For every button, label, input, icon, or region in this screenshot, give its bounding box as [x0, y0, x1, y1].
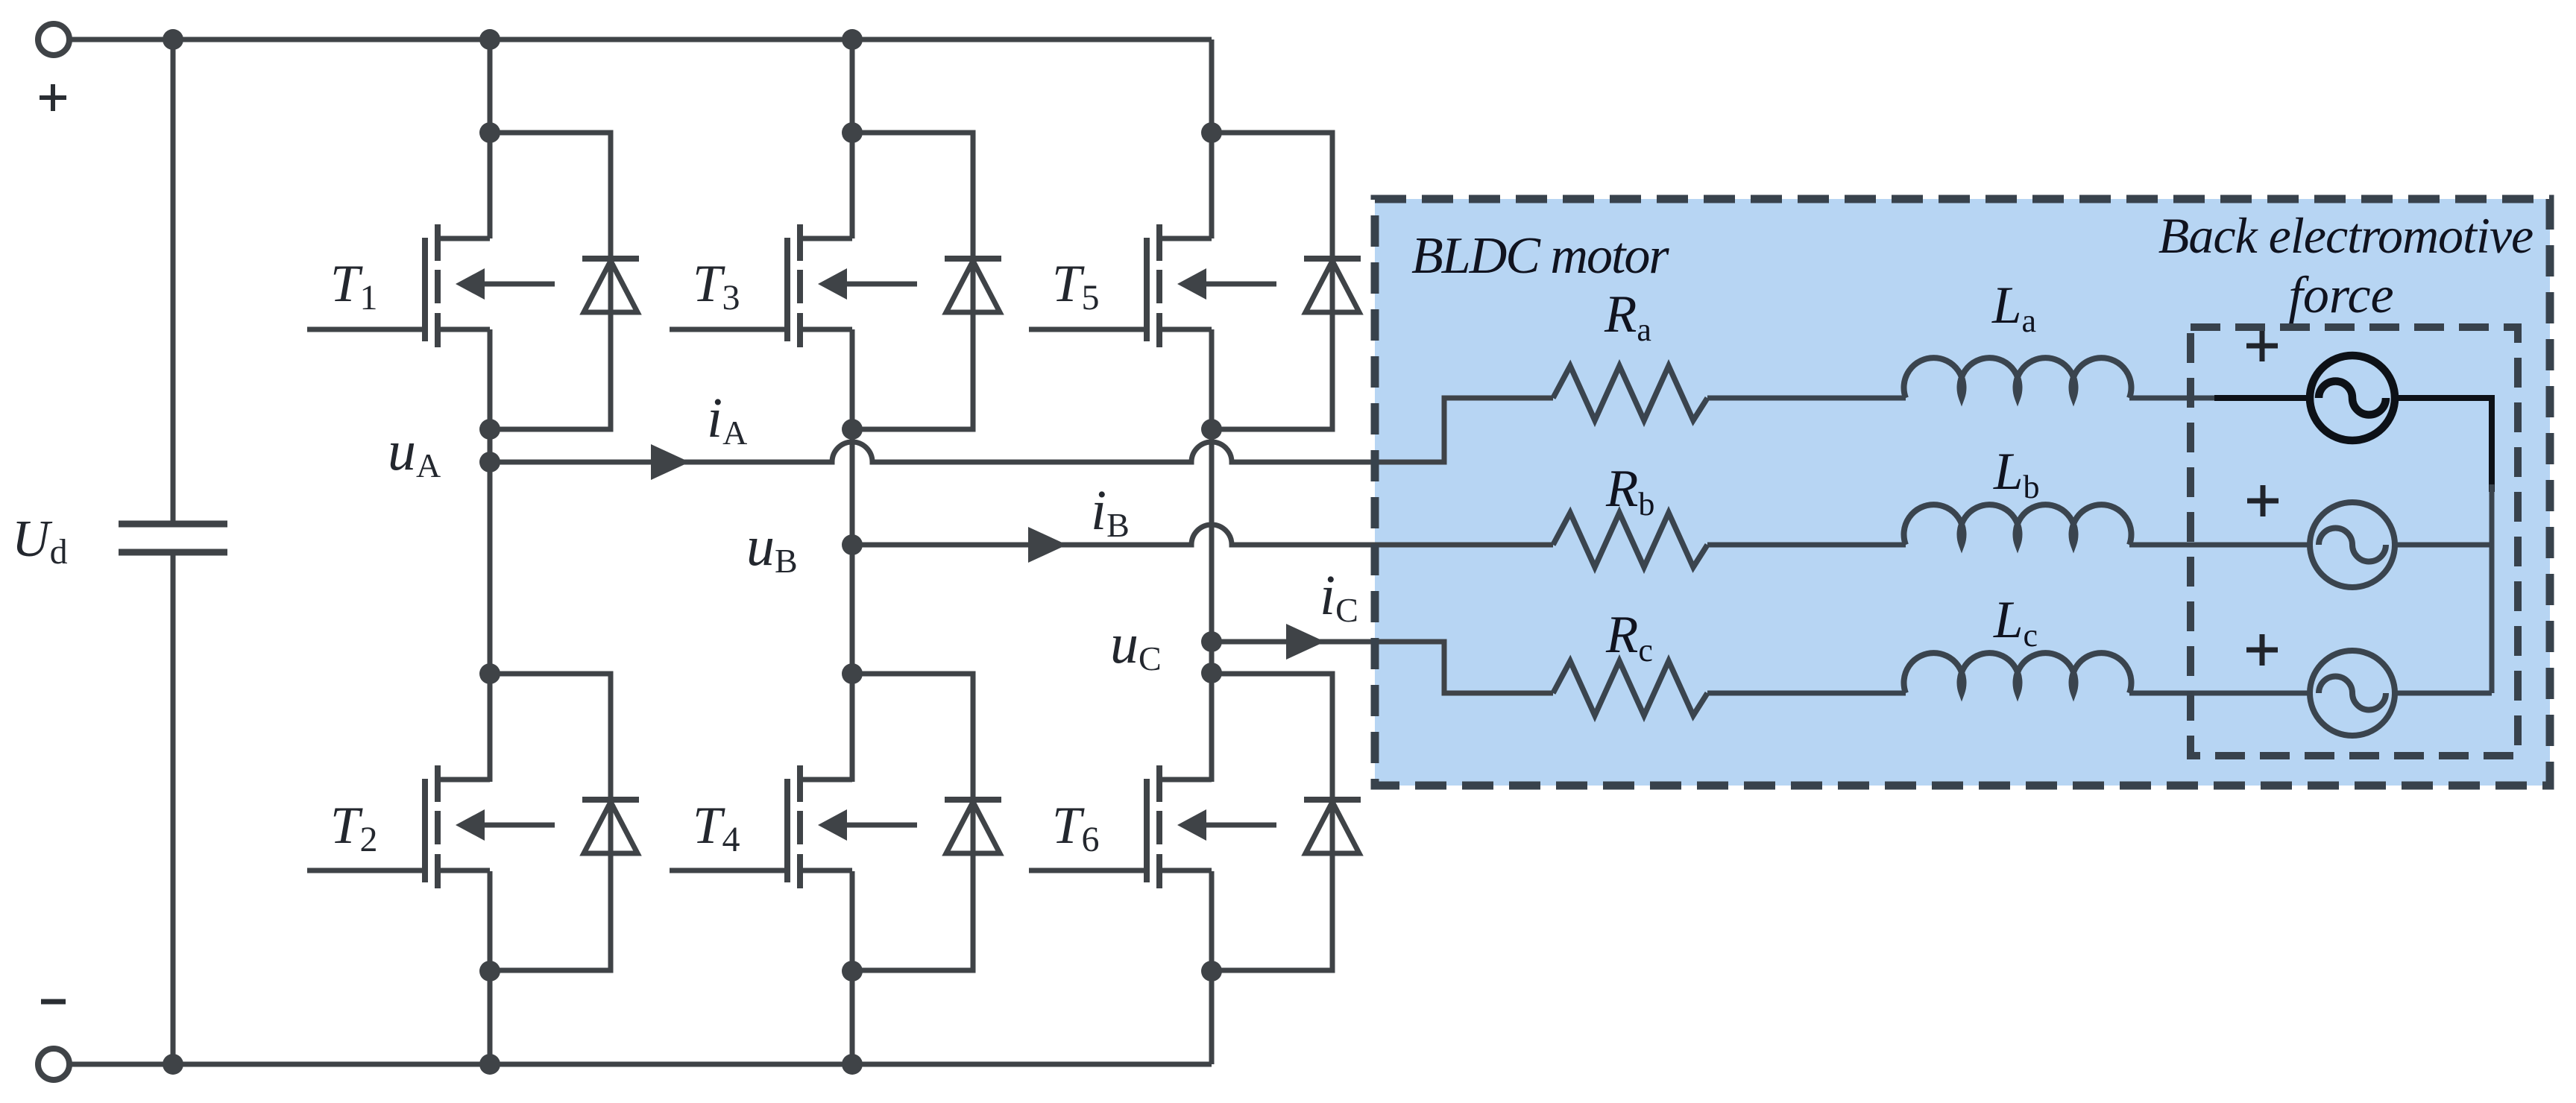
ac source ec	[2310, 651, 2395, 736]
resistor Ra	[1553, 366, 1707, 420]
inductor Lc	[1904, 653, 2132, 693]
phase C leg wire	[1209, 39, 1215, 1064]
minus sign	[41, 999, 66, 1005]
transistor T3	[670, 224, 917, 347]
BLDC motor dashed border	[1375, 199, 2550, 786]
wire Lb to source b	[2129, 543, 2310, 548]
capacitor C plates	[119, 524, 227, 552]
svg-text:T5: T5	[1052, 255, 1100, 317]
svg-text:T3: T3	[693, 255, 740, 317]
plus sign	[40, 84, 66, 111]
phase B leg wire	[850, 39, 855, 1064]
diode D1	[490, 133, 639, 429]
node uB phase wire	[852, 525, 1553, 545]
svg-text:force: force	[2288, 267, 2393, 324]
svg-text:T1: T1	[330, 255, 378, 317]
svg-text:iC: iC	[1320, 564, 1358, 629]
ac source ea	[2310, 355, 2395, 440]
neutral bus wire	[2490, 484, 2495, 693]
wire Rc to Lc	[1707, 691, 1906, 696]
transistor T4	[670, 765, 917, 888]
junction dots phase B	[842, 122, 863, 143]
svg-text:uA: uA	[388, 420, 441, 484]
svg-text:T2: T2	[330, 797, 378, 859]
node uA phase wire	[490, 398, 1553, 462]
resistor Rc	[1553, 661, 1707, 715]
diode D2	[490, 674, 639, 970]
transistor T6	[1029, 765, 1276, 888]
node uC phase wire	[1212, 642, 1553, 693]
transistor T1	[307, 224, 555, 347]
transistor T2	[307, 765, 555, 888]
inductor La	[1904, 358, 2132, 398]
top DC bus wire	[69, 37, 1212, 42]
svg-text:iB: iB	[1091, 479, 1130, 544]
capacitor C wires	[171, 39, 176, 1064]
inductor Lb	[1904, 505, 2132, 545]
svg-text:T4: T4	[693, 797, 740, 859]
diode D5	[1212, 133, 1361, 429]
svg-text:uB: uB	[746, 515, 798, 580]
wire eb to neutral	[2395, 543, 2492, 548]
junction dots phase C	[1201, 122, 1222, 143]
arrow iA	[651, 444, 690, 480]
phase A leg wire	[488, 39, 493, 1064]
svg-text:iA: iA	[707, 387, 747, 452]
junction dots phase A	[479, 122, 500, 143]
svg-text:Ud: Ud	[12, 511, 68, 572]
terminal -	[38, 1049, 69, 1080]
terminal +	[38, 24, 69, 55]
arrow iB	[1028, 527, 1067, 563]
svg-text:Back electromotive: Back electromotive	[2158, 207, 2533, 264]
wire ea to neutral	[2395, 398, 2492, 492]
wire ec to neutral	[2395, 691, 2492, 696]
plus ea	[2246, 330, 2278, 361]
ac source eb	[2310, 502, 2395, 587]
arrow iC	[1286, 624, 1325, 660]
bottom DC bus wire	[69, 1062, 1212, 1067]
wire into emf a (black)	[2214, 395, 2310, 401]
diode D4	[852, 674, 1001, 970]
plus ec	[2246, 634, 2278, 666]
junction dots top bus	[163, 29, 183, 50]
diode D6	[1212, 674, 1361, 970]
wire Lc to source c	[2129, 691, 2310, 696]
svg-text:BLDC motor: BLDC motor	[1411, 227, 1669, 285]
wire La to source a	[2129, 396, 2218, 401]
wire Ra to La	[1707, 396, 1906, 401]
resistor Rb	[1553, 513, 1707, 567]
svg-text:T6: T6	[1052, 797, 1100, 859]
transistor T5	[1029, 224, 1276, 347]
junction dots bottom bus	[163, 1054, 183, 1075]
diode D3	[852, 133, 1001, 429]
wire Rb to Lb	[1707, 543, 1906, 548]
BLDC motor shaded region	[1375, 199, 2550, 786]
plus eb	[2247, 485, 2279, 516]
back EMF dashed border	[2191, 327, 2518, 756]
svg-text:uC: uC	[1110, 613, 1162, 677]
